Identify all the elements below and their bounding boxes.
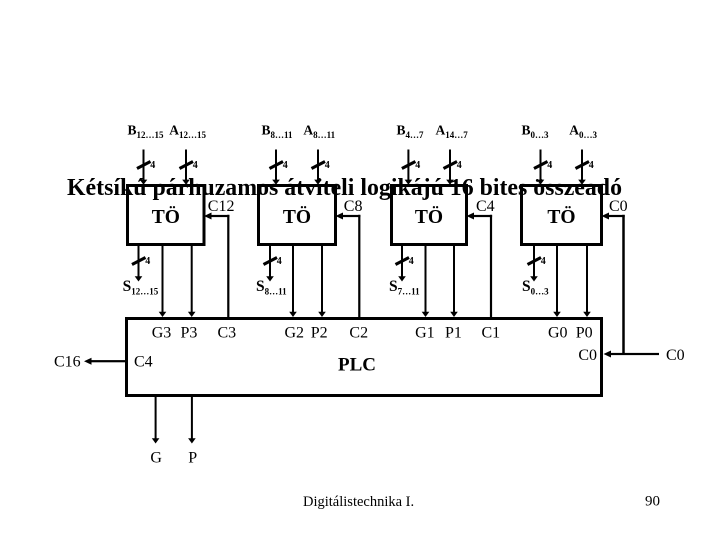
svg-text:P3: P3 — [181, 325, 198, 342]
bus-width tick on A input U1 — [180, 162, 194, 169]
bus-width tick on B input U3 — [402, 162, 416, 169]
svg-text:B12…15: B12…15 — [128, 123, 165, 141]
svg-text:4: 4 — [409, 256, 414, 267]
svg-text:G2: G2 — [285, 325, 305, 342]
wire B bus input to U3 — [405, 150, 413, 185]
svg-text:G3: G3 — [152, 325, 172, 342]
wire carry C2 from PLC up into U2 C8 input — [336, 213, 361, 318]
bus-width tick on A input U2 — [312, 162, 326, 169]
svg-text:P2: P2 — [311, 325, 328, 342]
adder block U3 (TÖ) — [392, 186, 467, 245]
wire carry C3 from PLC up into U1 C12 input — [204, 213, 229, 318]
svg-text:C3: C3 — [218, 325, 237, 342]
wire P1 output of U3 to PLC — [450, 246, 458, 317]
wire B bus input to U2 — [272, 150, 280, 185]
svg-text:G: G — [150, 450, 162, 467]
wire P group-propagate output of PLC — [188, 397, 196, 444]
svg-text:S12…15: S12…15 — [123, 278, 159, 297]
svg-text:P: P — [188, 450, 197, 467]
svg-text:C8: C8 — [344, 198, 363, 215]
svg-text:S8…11: S8…11 — [256, 278, 287, 297]
wire A bus input to U3 — [446, 150, 454, 185]
svg-text:B0…3: B0…3 — [522, 123, 550, 141]
wire B bus input to U1 — [140, 150, 148, 185]
svg-text:C12: C12 — [208, 198, 235, 215]
svg-text:C0: C0 — [609, 198, 628, 215]
svg-text:4: 4 — [415, 160, 420, 171]
svg-text:TÖ: TÖ — [415, 207, 443, 228]
wire C16 carry-out from PLC — [84, 358, 126, 365]
svg-text:A8…11: A8…11 — [303, 123, 335, 141]
svg-text:PLC: PLC — [338, 355, 376, 376]
wire A bus input to U4 — [578, 150, 586, 185]
svg-text:90: 90 — [645, 494, 660, 510]
svg-text:4: 4 — [457, 160, 462, 171]
bus-width tick on S output U2 — [264, 258, 278, 265]
svg-text:G1: G1 — [415, 325, 435, 342]
wire P2 output of U2 to PLC — [318, 246, 326, 317]
wire C0 carry-in to PLC — [604, 351, 660, 358]
bus-width tick on A input U4 — [576, 162, 590, 169]
svg-text:4: 4 — [145, 256, 150, 267]
svg-text:C2: C2 — [349, 325, 368, 342]
wire G3 output of U1 to PLC — [159, 246, 167, 317]
svg-text:A14…7: A14…7 — [436, 123, 469, 141]
wire P3 output of U1 to PLC — [188, 246, 196, 317]
svg-text:C4: C4 — [134, 354, 153, 371]
bus-width tick on S output U1 — [132, 258, 146, 265]
svg-text:TÖ: TÖ — [152, 207, 180, 228]
svg-text:C1: C1 — [482, 325, 501, 342]
wire carry C1 from PLC up into U3 C4 input — [467, 213, 493, 318]
svg-text:4: 4 — [589, 160, 594, 171]
svg-text:4: 4 — [277, 256, 282, 267]
svg-text:P1: P1 — [445, 325, 462, 342]
svg-text:A12…15: A12…15 — [169, 123, 206, 141]
adder block U2 (TÖ) — [259, 186, 336, 245]
PLC block (parallel carry logic) — [127, 319, 602, 396]
svg-text:TÖ: TÖ — [283, 207, 311, 228]
svg-text:4: 4 — [541, 256, 546, 267]
svg-text:B8…11: B8…11 — [262, 123, 294, 141]
wire B bus input to U4 — [537, 150, 545, 185]
wire S0…3 sum output of U4 — [530, 246, 538, 282]
adder block U1 (TÖ) — [128, 186, 205, 245]
svg-text:A0…3: A0…3 — [569, 123, 597, 141]
svg-text:B4…7: B4…7 — [397, 123, 425, 141]
svg-text:4: 4 — [193, 160, 198, 171]
bus-width tick on B input U1 — [137, 162, 151, 169]
svg-text:Digitálistechnika I.: Digitálistechnika I. — [303, 494, 414, 510]
svg-text:TÖ: TÖ — [547, 207, 575, 228]
svg-text:C0: C0 — [666, 347, 685, 364]
wire A bus input to U1 — [182, 150, 190, 185]
wire G2 output of U2 to PLC — [289, 246, 297, 317]
wire S12…15 sum output of U1 — [135, 246, 143, 282]
bus-width tick on B input U2 — [270, 162, 284, 169]
svg-text:4: 4 — [283, 160, 288, 171]
wire S7…11 sum output of U3 — [398, 246, 406, 282]
svg-text:S0…3: S0…3 — [522, 278, 549, 297]
svg-text:C16: C16 — [54, 354, 81, 371]
svg-text:S7…11: S7…11 — [389, 278, 420, 297]
svg-text:C0: C0 — [578, 347, 597, 364]
wire carry C0 branch up into U4 C0 input — [602, 213, 625, 355]
bus-width tick on S output U3 — [396, 258, 410, 265]
svg-text:C4: C4 — [476, 198, 495, 215]
svg-text:4: 4 — [325, 160, 330, 171]
wire A bus input to U2 — [314, 150, 322, 185]
svg-text:4: 4 — [547, 160, 552, 171]
svg-text:P0: P0 — [576, 325, 593, 342]
adder block U4 (TÖ) — [522, 186, 602, 245]
bus-width tick on B input U4 — [534, 162, 548, 169]
wire G1 output of U3 to PLC — [422, 246, 430, 317]
wire P0 output of U4 to PLC — [583, 246, 591, 317]
svg-text:4: 4 — [150, 160, 155, 171]
bus-width tick on A input U3 — [444, 162, 458, 169]
svg-text:G0: G0 — [548, 325, 568, 342]
wire G0 output of U4 to PLC — [553, 246, 561, 317]
wire S8…11 sum output of U2 — [266, 246, 274, 282]
bus-width tick on S output U4 — [528, 258, 542, 265]
wire G group-generate output of PLC — [152, 397, 160, 444]
